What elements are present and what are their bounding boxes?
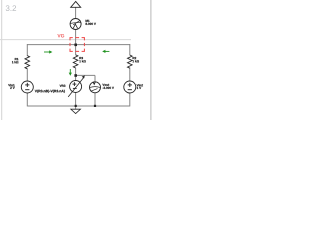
junction vout bottom	[94, 105, 96, 107]
page right border	[150, 0, 152, 120]
junction mid bottom	[75, 105, 77, 107]
resistor R3	[73, 55, 78, 68]
resistor R2	[128, 55, 133, 68]
value label 1 kOhm R1	[12, 61, 18, 63]
node VG highlight box	[70, 38, 84, 52]
label Vin2	[137, 84, 143, 86]
junction node branch	[74, 74, 77, 77]
meter Vout	[90, 82, 101, 93]
section number 3.2	[6, 5, 16, 11]
value label 1 kOhm R2	[133, 60, 139, 62]
value label 1 kOhm R3	[79, 60, 85, 62]
wire left column	[26, 44, 28, 106]
label Vout	[102, 84, 109, 86]
label R1	[15, 58, 19, 60]
source Vin1	[21, 81, 33, 93]
value label VR3 expression	[35, 90, 65, 93]
wire bottom rail	[27, 105, 130, 107]
label R2	[133, 57, 137, 59]
dependent source VR3	[68, 75, 85, 97]
wire top horizontal	[27, 44, 130, 46]
green current arrow left	[102, 50, 109, 53]
value label 1 V	[137, 87, 141, 89]
wire branch to Vout meter	[76, 75, 95, 106]
value label 8.000 V	[85, 23, 95, 25]
wire right column	[129, 44, 131, 106]
meter M1	[70, 19, 81, 30]
power arrow symbol (top reference triangle)	[71, 1, 81, 7]
green current arrow down	[69, 69, 72, 76]
value label 2 V	[10, 87, 14, 89]
node label VG	[57, 34, 64, 37]
green current arrow right	[44, 50, 52, 53]
ground	[71, 109, 81, 113]
wire middle column	[75, 7, 77, 109]
junction VG	[74, 44, 77, 47]
page left border	[1, 0, 3, 120]
resistor R1	[25, 56, 30, 69]
source Vin2	[124, 81, 136, 93]
label M1	[86, 20, 90, 22]
grey horizontal rule	[0, 39, 131, 41]
label VR3	[60, 85, 66, 87]
label Vin1	[8, 84, 14, 86]
background	[0, 0, 160, 120]
value label -3.000 V	[103, 87, 114, 89]
label R3	[79, 57, 83, 59]
